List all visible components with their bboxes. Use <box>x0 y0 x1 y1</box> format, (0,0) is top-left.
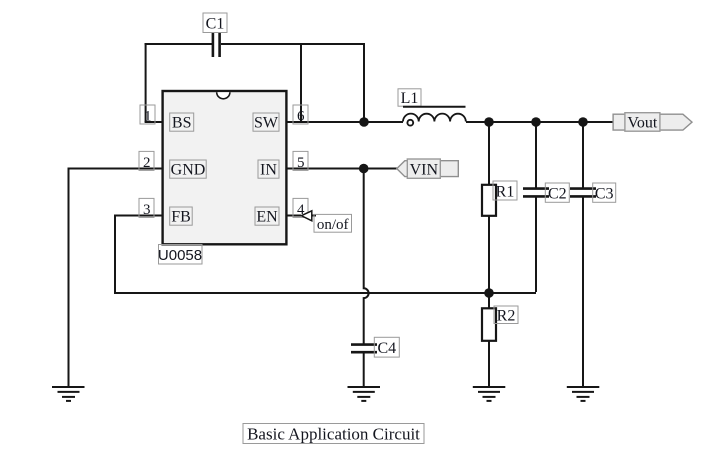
op-amp U1 IC body <box>163 91 287 244</box>
svg-text:Vout: Vout <box>627 114 657 131</box>
wire FB vertical <box>114 215 116 294</box>
svg-text:Basic Application Circuit: Basic Application Circuit <box>247 425 420 444</box>
wire left vertical to ground <box>68 168 70 388</box>
wire pin3 FB stub <box>115 215 163 217</box>
svg-text:on/of: on/of <box>317 217 349 233</box>
wire EN stub after arrow <box>312 215 317 217</box>
svg-text:6: 6 <box>297 109 305 125</box>
pin FB label <box>170 207 193 225</box>
wire R1 bottom to junction <box>488 216 490 293</box>
node Vout junction dot R1 <box>484 117 494 127</box>
svg-text:C4: C4 <box>377 340 396 357</box>
wire top C1 right segment <box>221 43 364 45</box>
inductor L1 label box <box>398 89 421 106</box>
pin GND label <box>170 160 207 178</box>
capacitor C2 <box>523 189 549 197</box>
resistor R2 <box>482 308 496 341</box>
svg-text:GND: GND <box>171 162 206 179</box>
pin 2 box <box>139 151 154 170</box>
wire pin4 EN stub <box>286 215 301 217</box>
IC top notch <box>217 92 230 99</box>
svg-text:IN: IN <box>260 162 277 179</box>
capacitor C4 label <box>374 337 399 357</box>
capacitor C1 label box <box>203 13 227 33</box>
capacitor C1 <box>213 33 220 57</box>
wire C3 top <box>582 122 584 188</box>
ground left <box>52 387 85 401</box>
svg-text:2: 2 <box>143 155 151 171</box>
pin BS label <box>170 113 194 131</box>
svg-text:1: 1 <box>144 109 152 125</box>
wire vertical BS to C1 <box>145 43 147 122</box>
svg-text:C3: C3 <box>595 185 614 202</box>
wire pin1 BS stub <box>145 121 163 123</box>
wire R2 top stub <box>488 293 490 309</box>
svg-text:3: 3 <box>143 202 151 218</box>
pin 4 box <box>293 198 308 217</box>
wire L1 to Vout node <box>466 121 614 123</box>
pin 6 box <box>293 105 308 124</box>
node Vout junction dot C3 <box>578 117 588 127</box>
wire vertical C1 right end to SW node <box>363 43 365 122</box>
Vout flag <box>613 113 692 132</box>
resistor R1 <box>482 185 496 216</box>
capacitor C3 label <box>593 183 616 202</box>
EN input arrow <box>301 211 312 221</box>
pin 5 box <box>293 151 308 170</box>
svg-text:C1: C1 <box>206 16 225 33</box>
pin SW label <box>253 113 279 131</box>
VIN flag <box>397 159 459 179</box>
wire C3 down to ground <box>582 197 584 387</box>
capacitor C2 label <box>545 183 569 202</box>
title Basic Application Circuit <box>243 424 424 444</box>
wire SW to L1 <box>286 121 403 123</box>
wire pin5 IN to VIN <box>286 168 398 170</box>
pin 1 box <box>140 105 155 124</box>
ground C3 <box>567 387 600 401</box>
svg-text:L1: L1 <box>401 90 419 107</box>
wire top C1 left segment <box>145 43 212 45</box>
node SW junction dot <box>359 117 369 127</box>
svg-text:EN: EN <box>256 209 278 226</box>
wire Vout node R1 top <box>488 122 490 185</box>
svg-text:C2: C2 <box>548 185 567 202</box>
resistor R1 label <box>493 181 517 200</box>
wire C2 top <box>535 122 537 188</box>
node FB junction dot <box>484 288 494 298</box>
svg-text:R2: R2 <box>497 307 516 324</box>
node Vout junction dot C2 <box>531 117 541 127</box>
wire vertical C1 to pin6 <box>300 43 302 122</box>
pin IN label <box>258 160 279 178</box>
wire VIN node down to C4 with hop over FB wire <box>364 169 369 344</box>
svg-text:VIN: VIN <box>410 162 439 179</box>
capacitor C4 <box>351 345 377 353</box>
svg-text:SW: SW <box>254 115 279 132</box>
svg-text:FB: FB <box>171 209 191 226</box>
wire C4 to ground <box>363 353 365 387</box>
wire C2 bottom to FB net <box>535 197 537 292</box>
on/of label <box>314 214 352 232</box>
wire pin2 GND to left <box>69 168 164 170</box>
svg-text:U0058: U0058 <box>158 247 202 264</box>
ground C4 <box>348 387 381 401</box>
node VIN junction dot <box>359 164 369 174</box>
pin 3 box <box>139 198 154 217</box>
ground R2 <box>473 387 506 401</box>
capacitor C3 <box>570 189 596 197</box>
svg-text:BS: BS <box>172 115 192 132</box>
pin EN label <box>255 207 279 225</box>
resistor R2 label <box>494 306 518 324</box>
wire R2 to ground <box>488 341 490 388</box>
svg-text:R1: R1 <box>496 183 515 200</box>
inductor L1 <box>403 107 466 126</box>
wire FB bottom horizontal <box>114 292 536 294</box>
svg-text:5: 5 <box>297 155 305 171</box>
U0058 reference label <box>159 245 203 265</box>
